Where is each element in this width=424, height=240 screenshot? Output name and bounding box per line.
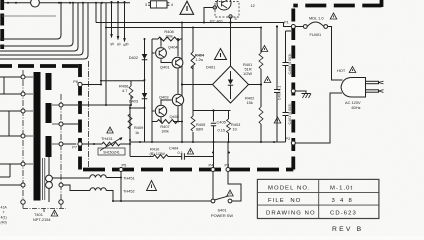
svg-text:REV B: REV B [332, 226, 363, 233]
svg-text:R408: R408 [164, 29, 173, 34]
svg-text:7: 7 [3, 211, 5, 215]
svg-text:D403: D403 [129, 99, 138, 104]
svg-text:POWER SW: POWER SW [211, 213, 233, 218]
svg-text:4(1): 4(1) [1, 216, 7, 220]
svg-text:C401 (0.003): C401 (0.003) [288, 104, 292, 125]
svg-text:3: 3 [145, 2, 147, 7]
svg-text:MDL 1.0: MDL 1.0 [309, 16, 324, 21]
svg-text:100k: 100k [161, 130, 169, 134]
svg-text:15k: 15k [247, 100, 253, 105]
svg-text:M-1.0t: M-1.0t [330, 185, 353, 191]
svg-text:TH452: TH452 [123, 189, 135, 194]
svg-text:P4: P4 [209, 163, 215, 168]
svg-text:C406 (0.003): C406 (0.003) [288, 54, 292, 75]
svg-text:Q404: Q404 [168, 45, 178, 50]
svg-text:P5: P5 [122, 163, 127, 168]
svg-text:Q403: Q403 [159, 95, 169, 100]
svg-text:Q401: Q401 [160, 65, 170, 70]
svg-text:MODEL NO.: MODEL NO. [268, 185, 311, 191]
svg-text:P2: P2 [286, 136, 291, 141]
svg-text:TH431: TH431 [101, 136, 113, 141]
svg-text:C409 0.1: C409 0.1 [278, 86, 282, 101]
svg-text:5: 5 [235, 16, 237, 21]
svg-text:P3: P3 [225, 163, 230, 168]
svg-text:P7: P7 [72, 145, 77, 150]
svg-text:P1: P1 [284, 20, 289, 25]
svg-text:0.1: 0.1 [178, 150, 183, 155]
svg-text:FILE NO: FILE NO [268, 198, 301, 204]
svg-text:68R: 68R [196, 127, 203, 132]
svg-text:PC 401: PC 401 [210, 19, 223, 24]
svg-text:0.15: 0.15 [218, 128, 226, 133]
svg-text:1k: 1k [135, 130, 139, 135]
svg-text:60Hz: 60Hz [352, 105, 361, 110]
svg-text:HOT: HOT [337, 68, 346, 73]
svg-text:1.2w: 1.2w [196, 58, 204, 62]
svg-text:41A: 41A [1, 206, 8, 210]
svg-text:TH451: TH451 [123, 176, 135, 181]
svg-text:R404: R404 [195, 54, 205, 58]
svg-text:4.7: 4.7 [122, 88, 127, 93]
svg-text:DRAWING NO: DRAWING NO [266, 210, 316, 216]
svg-text:CD-623: CD-623 [330, 210, 357, 216]
svg-text:3 4 8: 3 4 8 [332, 198, 354, 204]
svg-text:D402: D402 [129, 55, 138, 60]
svg-text:1/2W: 1/2W [243, 71, 252, 76]
svg-text:FU401: FU401 [310, 32, 322, 37]
svg-text:S401: S401 [217, 208, 226, 213]
svg-text:(B) 1/2W: (B) 1/2W [150, 151, 166, 156]
svg-text:NPT-2154: NPT-2154 [33, 217, 51, 222]
svg-text:12: 12 [251, 3, 255, 8]
svg-text:R407: R407 [160, 124, 169, 129]
svg-text:100k: 100k [165, 34, 173, 38]
svg-text:(40): (40) [1, 221, 7, 225]
svg-text:Q402: Q402 [170, 114, 180, 119]
svg-text:SH15GZ41: SH15GZ41 [103, 151, 120, 155]
svg-text:P6: P6 [73, 79, 78, 84]
svg-text:D401: D401 [206, 65, 215, 70]
svg-text:C405: C405 [217, 120, 226, 125]
